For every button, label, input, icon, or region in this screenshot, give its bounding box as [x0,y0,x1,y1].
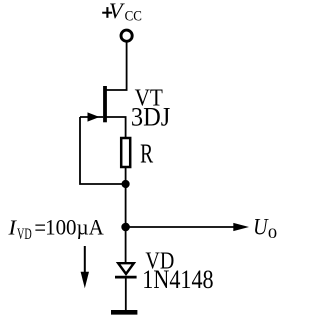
label 1N4148 [142,265,213,294]
wire output [126,226,235,228]
svg-text:0: 0 [268,225,277,242]
wire resistor to diode [125,167,127,262]
junction node output [121,223,130,232]
wire Vcc to drain [107,42,127,91]
wire gate feedback [80,117,126,184]
label R [140,139,153,169]
diode VD triangle [118,263,134,274]
resistor R body [121,138,130,167]
terminal Vcc (open circle) [121,30,132,41]
svg-text:3DJ: 3DJ [131,104,171,132]
svg-text:CC: CC [125,8,142,25]
svg-text:U: U [253,214,269,240]
transistor VT source lead [107,117,126,138]
label 3DJ [131,104,171,132]
svg-text:1N4148: 1N4148 [142,265,213,294]
arrow Ivd (current direction) [81,246,89,288]
arrowhead output [233,223,249,231]
svg-text:100µA: 100µA [45,215,104,240]
transistor VT channel bar [103,86,107,122]
label Ivd current [7,214,104,243]
label +Vcc [102,0,142,25]
svg-text:VD: VD [17,225,32,243]
label U0 [253,214,277,242]
label VT [135,84,163,111]
label VD [145,247,174,274]
diode VD cathode bar [115,276,137,279]
ground [111,310,137,315]
transistor VT gate arrowhead [88,112,100,121]
svg-text:R: R [140,139,153,169]
svg-text:=: = [34,214,46,243]
transistor VT gate lead [80,116,103,118]
wire diode to ground [125,279,127,312]
svg-text:V: V [109,0,125,23]
junction node below R [122,180,130,188]
